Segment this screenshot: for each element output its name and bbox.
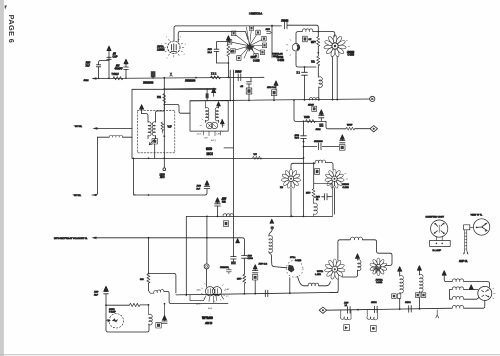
cluster x255 box [252, 275, 257, 280]
wire L14 bottom [342, 270, 358, 277]
tuning slug box T1 [152, 139, 158, 144]
wire slug down x153 [154, 144, 156, 158]
node dot y303 x164 [164, 303, 166, 305]
inductor bead L1 on bus [151, 71, 156, 77]
output transformer T3 feed arrow [442, 271, 446, 276]
wire grid cap into V7 [206, 269, 208, 287]
svg-text:6X9: 6X9 [206, 147, 212, 151]
inductor T2 primary [206, 101, 209, 121]
svg-text:JW? C-8: JW? C-8 [259, 264, 268, 266]
wire C7 to B line [248, 94, 250, 101]
node dot x318 top [317, 31, 319, 33]
tube V2 anode blob [296, 44, 300, 50]
svg-text:B-L AMP: B-L AMP [433, 249, 442, 252]
D1 terminal bar [430, 240, 451, 246]
tube V8 dashed ring [286, 260, 303, 277]
resistor R3 osc grid [317, 37, 320, 47]
scan edge line left [2, 0, 4, 356]
caps x233 bottom cluster [231, 255, 237, 262]
inductor L8 det [314, 198, 318, 216]
tube V9 flower [324, 259, 345, 280]
pin box 5 [249, 26, 253, 31]
node dot x303 y141 [303, 141, 305, 143]
inductor L2 osc coil [302, 29, 313, 32]
wire R12 to x148 [140, 304, 148, 306]
svg-text:?k C: ?k C [295, 138, 300, 140]
wire T3 row3 to SP [464, 297, 479, 299]
D2 cable fork [464, 251, 468, 254]
svg-text:JWM?: JWM? [235, 72, 242, 74]
node dots speaker line [399, 308, 401, 310]
arrow small x237 [236, 239, 240, 243]
wire y195 line [133, 194, 205, 196]
svg-text:MC!: MC! [207, 152, 213, 156]
dark cap x233 [231, 261, 236, 264]
wire T3 row2 to SP left [464, 289, 478, 291]
capacitor x207 cluster [204, 185, 210, 195]
tube V8 grid blob [288, 265, 295, 273]
resistor R12 pilot [130, 303, 141, 306]
arrowhead into lamp [106, 319, 110, 322]
wire pilot feed B arrow [104, 286, 108, 291]
svg-text:14(?): 14(?) [197, 133, 202, 135]
socket V1 starburst center [232, 27, 262, 58]
wire y146 line [304, 146, 340, 148]
cluster arrow x342 [340, 135, 344, 140]
node dot y67 [304, 66, 306, 68]
wire L16 to line [418, 292, 420, 309]
capacitor C10 series [301, 136, 307, 163]
node bus dot x98 [98, 78, 100, 80]
grid cap circle [204, 264, 209, 269]
pin box 2 [227, 40, 231, 45]
svg-text:C-23B: C-23B [278, 60, 285, 62]
capacitor C11 series [319, 143, 321, 150]
wire R4 to L3 [317, 66, 319, 77]
svg-text:WW?: WW? [347, 124, 353, 126]
box under L9 [223, 221, 228, 227]
det loop left side [313, 163, 315, 188]
wire top line right of C2 to corner [290, 25, 318, 36]
wire V8 down to line1 [289, 278, 291, 294]
svg-text:MT?: MT? [311, 42, 316, 44]
socket diagram D2 circle [473, 219, 489, 235]
svg-text:JWM0000: JWM0000 [143, 83, 154, 85]
svg-text:C?00: C?00 [248, 258, 254, 260]
D2 pin marks [477, 223, 488, 231]
svg-text:CAP: CAP [113, 55, 118, 58]
svg-text:MT'D RECT'RS AT VOL/CONT CL: MT'D RECT'RS AT VOL/CONT CL [54, 237, 88, 240]
node dot line1 x289 [289, 292, 291, 294]
B+ arrow x213 [212, 88, 216, 96]
arrow right of socket [220, 120, 224, 128]
svg-text:VIEW ?? TL: VIEW ?? TL [471, 215, 484, 217]
resistor R1 on bus [113, 77, 123, 80]
wire coil to corner [313, 31, 333, 33]
dashed IF transformer box T1 [137, 110, 174, 152]
capacitor C5 series on bus [238, 74, 241, 81]
wire AVC long line y237 [93, 238, 244, 254]
svg-text:' 6?? RL: ' 6?? RL [74, 126, 83, 128]
wire osc tap corner down [92, 137, 98, 195]
hanging coil L18 [367, 310, 378, 320]
svg-text:JW?2: JW?2 [109, 309, 115, 311]
B+ arrow x276 [274, 81, 278, 86]
pin box 3 [231, 49, 235, 54]
wire arrow to primary [142, 114, 148, 122]
inductor L12 coupling [308, 283, 319, 286]
svg-text:JW?2A: JW?2A [376, 278, 384, 281]
pot arrow assembly x126 [124, 59, 129, 78]
T3 winding row3 [452, 296, 463, 299]
wire cluster x255 to line1 [254, 280, 256, 294]
wire circle to coil [269, 230, 272, 237]
svg-text:C-23B: C-23B [348, 55, 355, 57]
wire rect loop top left [338, 240, 350, 260]
capacitor C2 series in top wire [285, 22, 291, 29]
pin boxes L15 [392, 294, 397, 299]
potentiometer squiggle [149, 291, 154, 294]
wire V2 plate down [296, 52, 316, 67]
wire V3 plate down [336, 57, 338, 100]
node dot x164 y89 [163, 88, 165, 90]
node dot x148 y305 [148, 304, 150, 306]
node dot loop top [313, 162, 315, 164]
svg-text:JWM2: JWM2 [281, 18, 289, 22]
svg-text:C-23B: C-23B [295, 260, 302, 262]
padder box under L2 [303, 36, 308, 42]
inductor L5 small [109, 135, 122, 137]
svg-text:ATM: ATM [295, 134, 300, 137]
pin box 7 [262, 36, 266, 41]
capacitor cluster x342 [340, 139, 345, 142]
wire y88 mid line [164, 87, 216, 90]
bead under C9 [319, 123, 323, 127]
B+ arrow x321 [319, 110, 323, 115]
resistor R5 on AVC line [306, 120, 316, 123]
tube V5 det flower [281, 169, 301, 188]
svg-text:X?1: X?1 [157, 97, 162, 99]
svg-text:JWM000: JWM000 [314, 141, 323, 143]
svg-text:A(R): A(R) [196, 302, 201, 305]
connector diamond terminal [370, 126, 377, 132]
svg-text:JW263: JW263 [347, 52, 355, 54]
wire x186 drop [185, 217, 187, 296]
wire x148 stub gap [148, 323, 150, 325]
tube V3 mixer flower [324, 35, 347, 57]
wire drop from top line to socket [271, 26, 273, 58]
capacitor C3 to bus [96, 61, 109, 79]
box under L17 [344, 325, 350, 331]
socket V4 ticks [200, 119, 224, 132]
wire coils to slug [148, 136, 156, 139]
SP pin marks [482, 290, 488, 297]
node bus dot x153 [152, 77, 154, 79]
node circle x272 [271, 226, 274, 229]
arrowhead AVC long line [92, 237, 97, 240]
node dot x303 y146 [303, 146, 305, 148]
wire second lead from V1 to socket [178, 32, 248, 43]
resistor R10 det [312, 189, 315, 198]
socket V1 center blob [245, 43, 255, 52]
pilot lamp dashed circle [109, 314, 123, 328]
resistor R4 osc [317, 56, 320, 66]
wire V9 bottom to line1 [330, 279, 338, 293]
wire RC loop bottom [217, 63, 229, 77]
node dot y216 x303 [303, 216, 305, 218]
pin number labels around V1 [161, 37, 187, 60]
inductor L4 on B line [309, 98, 319, 101]
capacitor C13 series line1 [265, 290, 268, 297]
svg-text:W?TA: W?TA [317, 270, 323, 273]
T3 winding row1 [452, 279, 463, 282]
tube V1 socket tick ring [164, 38, 184, 57]
wire pilot bottom line [106, 320, 149, 332]
terminal circle end x164 [163, 168, 166, 171]
svg-text:12BE6: 12BE6 [157, 49, 165, 52]
svg-text:12?8: 12?8 [251, 57, 257, 59]
node dot line1 x186 [185, 294, 187, 296]
node dot x303 y158 [303, 157, 305, 159]
V7 electrodes [208, 289, 219, 295]
D1 pin marks [435, 223, 444, 233]
det loop right side [314, 184, 333, 217]
wire osc coil line [296, 32, 302, 43]
B+ arrow above T1 [140, 105, 144, 114]
V7 socket tick ring [201, 283, 225, 302]
node dot line1 x244 [244, 293, 246, 295]
svg-text:.05/: .05/ [116, 66, 120, 68]
pin box 1 [231, 31, 235, 36]
socket diagram D1 circle [431, 220, 448, 237]
svg-text:JWM: JWM [316, 129, 321, 131]
socket V4 pin stubs below [204, 131, 221, 136]
capacitor C15 series [375, 306, 378, 313]
box under L18 [371, 325, 377, 331]
socket V4 in box circles [206, 122, 212, 128]
tube V6 avc flower [325, 169, 345, 188]
svg-text:JWM000: JWM000 [220, 267, 229, 269]
tube V6 ticks [345, 173, 348, 185]
node bus dot x228 [228, 77, 230, 79]
node dot y216 x207 [206, 216, 208, 218]
wire pot to corner [164, 291, 228, 303]
box cluster x342 [339, 145, 345, 151]
pin box 6 [256, 30, 260, 35]
D2 plug box [464, 225, 470, 230]
pin boxes L16 [415, 293, 420, 298]
wire top jog to right stage [164, 104, 190, 113]
corner registration mark [5, 6, 8, 10]
wire V8 to L12 [298, 276, 308, 285]
B+ arrow x207 cluster [205, 181, 209, 186]
wire socket leads down x233 [232, 70, 234, 100]
output tube V7 circle A [205, 287, 214, 296]
wire audio line y216 [186, 216, 332, 218]
wire V6 down [334, 188, 336, 214]
node bus dot x196 [195, 77, 197, 79]
choke B arrow x399 [398, 267, 402, 276]
svg-text:X 2 1: X 2 1 [211, 74, 217, 76]
wire shield frame top [132, 88, 216, 90]
svg-text:C-23B: C-23B [253, 60, 260, 62]
svg-text:JWM: JWM [84, 80, 89, 82]
pilot lamp arrow symbol [112, 318, 118, 322]
svg-text:1 AF': 1 AF' [225, 288, 230, 291]
wire drop x294 [294, 100, 326, 121]
node dot line1 x255 [254, 293, 256, 295]
node bus dot x126 [125, 77, 127, 79]
stub hanging cluster y303 [164, 304, 166, 316]
trimmer mark on bus x171 [170, 73, 172, 76]
inductor L13 loop coil [350, 237, 362, 240]
inductor L7 coupling [315, 160, 326, 163]
resistor R9 in T1 box [161, 122, 164, 133]
node dots on B line [229, 100, 231, 102]
wire x148 volume chain upper [148, 238, 150, 274]
wire plate line1 sloped [176, 292, 338, 295]
wire RC loop top [217, 40, 229, 49]
solid box 2nd IF [190, 101, 228, 131]
wire L3 to B line [318, 87, 320, 100]
V10 dark fill marks [373, 263, 382, 273]
node dot x303 y121 [303, 120, 305, 122]
scan edge line bottom [0, 354, 500, 356]
wire long vertical x164 [163, 78, 165, 168]
node bus dot x109 [108, 77, 110, 79]
tube V2 tick ring [286, 39, 296, 58]
wire det coupling top line [291, 163, 315, 169]
resistor R14 in loop [227, 44, 230, 63]
SP ticks [493, 288, 496, 298]
capacitor chain x243 series [242, 254, 248, 274]
wire shield frame left [131, 89, 133, 158]
wire socket leads down x230 [229, 70, 231, 100]
scan edge strip left [0, 0, 2, 356]
wire vertical x303 detector feed [303, 121, 305, 136]
svg-text:W?b99: W?b99 [202, 316, 213, 320]
node dot x133 frame [133, 158, 135, 160]
wire shield frame bottom [132, 157, 303, 159]
resistor R8 on x164 [163, 94, 166, 103]
node dot y216 x217 [217, 216, 219, 218]
arrowhead osc tap [92, 194, 97, 197]
wire T3 row1 to SP top [464, 282, 490, 287]
wire corner into V3 top [333, 32, 335, 37]
node dot y237 x207 [206, 237, 208, 239]
inductor L10 lamp choke [149, 305, 152, 325]
slug box under L7 [315, 169, 320, 175]
capacitor C17 in loop [214, 49, 219, 63]
wire loop right side [363, 240, 393, 266]
svg-text:AM B: AM B [204, 321, 212, 325]
svg-text:' 6?? RL: ' 6?? RL [73, 195, 82, 197]
wire pilot resistor line [106, 304, 130, 306]
node bus arrowhead left [92, 77, 97, 80]
shield box x274 [271, 90, 276, 96]
wire R11 to pot [148, 283, 150, 291]
wire V5 cathode down [291, 188, 293, 217]
svg-text:1 AF': 1 AF' [216, 132, 221, 135]
wire x133 drop from frame [133, 158, 135, 195]
svg-text:XLF: XLF [86, 64, 91, 67]
svg-text:A4(?): A4(?) [211, 139, 216, 142]
capacitor x217 cluster [215, 204, 221, 217]
wire L11 hook [269, 252, 287, 268]
tube V2 oscillator [292, 44, 300, 52]
capacitor C4 to bus [107, 57, 111, 78]
tube V1 inner electrodes [171, 44, 177, 52]
output tube V7 circle B [212, 287, 221, 296]
svg-text:P-LMP: P-LMP [109, 312, 116, 314]
B+ arrow mid loop [355, 254, 359, 259]
resistor R2 on bus [211, 76, 221, 79]
hanging coil L17 [341, 310, 352, 320]
wire top grid lead from V1 [174, 26, 282, 41]
B+ arrow x228 RC loop [226, 36, 230, 41]
inductor T2 secondary [215, 108, 218, 121]
svg-text:12?B6: 12?B6 [277, 57, 284, 59]
tuning arrow T1 [149, 138, 156, 145]
choke bead L6 [206, 93, 209, 98]
svg-text:L-23B: L-23B [315, 274, 321, 276]
svg-text:ATM?: ATM? [308, 103, 314, 106]
wire R3 to node [317, 46, 319, 56]
resistor R13 x243 [243, 274, 246, 294]
wire link y273 [149, 273, 176, 293]
svg-text:AVC: AVC [160, 176, 165, 179]
T3 winding row2 [452, 287, 463, 290]
node dot x164 y136 [163, 135, 165, 137]
fork connector end [436, 310, 439, 318]
cluster x255 arrow [253, 265, 257, 269]
wire AVC line to diamond [326, 121, 346, 129]
svg-text:AMP OL: AMP OL [459, 260, 468, 263]
B+ arrow above C4 [107, 46, 111, 57]
tube V10 rect flower [370, 258, 388, 276]
svg-text:! SWITCH-A: ! SWITCH-A [249, 13, 263, 16]
inductor L11 vertical [269, 236, 273, 253]
pin box 10 [254, 53, 258, 58]
V7 pin stubs [204, 295, 224, 303]
wire L5 to frame [123, 136, 133, 138]
D2 cable [465, 230, 467, 251]
node bus dot x164 [163, 77, 165, 79]
osc coil assembly arrow top [270, 219, 274, 223]
arrow cluster bottom x164 [163, 315, 167, 319]
wire speaker feed line [327, 308, 452, 310]
pin box 4 [237, 56, 241, 61]
svg-text:C-23B: C-23B [376, 282, 383, 284]
wire coils to socket [206, 120, 219, 122]
capacitor C8 osc [302, 67, 308, 100]
caps above V7 right [226, 268, 231, 274]
svg-text:XLF: XLF [94, 294, 99, 296]
speaker circle SP [478, 286, 492, 300]
labels V7 pins [196, 288, 230, 310]
svg-text:JWM0000: JWM0000 [185, 80, 196, 82]
wire y300 stub line [190, 295, 204, 301]
node dot y195 x148 [148, 194, 150, 196]
wire stub box to x233 [224, 147, 233, 149]
inductor T1 secondary [152, 122, 155, 136]
capacitor cluster bottom x164 [162, 320, 167, 323]
svg-text:TYHLF: TYHLF [112, 74, 120, 76]
inductor L16 choke [419, 274, 423, 292]
node dot y216 x291 [290, 216, 292, 218]
svg-text:JW263: JW263 [342, 184, 350, 186]
wire AVC tap left [94, 127, 132, 129]
